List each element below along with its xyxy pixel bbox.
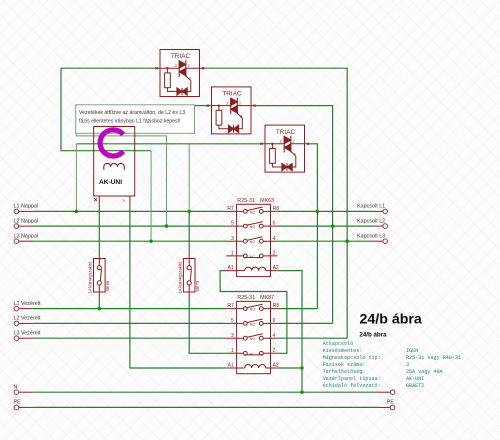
svg-text:NO: NO bbox=[250, 337, 256, 341]
svg-text:Kapcsolt L2: Kapcsolt L2 bbox=[357, 218, 385, 224]
svg-text:3: 3 bbox=[406, 362, 409, 368]
svg-text:1: 1 bbox=[231, 251, 234, 257]
circuit breaker F1 1A kismegszakito MK65 bbox=[88, 253, 110, 298]
svg-text:L2 Vezérelt: L2 Vezérelt bbox=[14, 316, 41, 322]
terminal L2 Vezerelt bbox=[14, 316, 41, 326]
node L1 Vezerelt / breaker F1 bbox=[98, 307, 101, 310]
terminal N right bbox=[378, 390, 395, 395]
svg-text:Átkapcsoló: Átkapcsoló bbox=[323, 340, 354, 347]
svg-text:3: 3 bbox=[231, 333, 234, 339]
terminal PE right bbox=[378, 400, 395, 410]
relay K2 R25-31 MK87 bbox=[226, 295, 279, 374]
triac module T3 (L1 phase) bbox=[260, 125, 309, 172]
wire relay K1 coil A1 to relay K2 contact 2 bbox=[220, 271, 287, 354]
node relay K2 coil A2 / N branch bbox=[300, 366, 303, 369]
spec table (teal) bbox=[323, 340, 461, 389]
svg-text:TRIAC: TRIAC bbox=[276, 129, 296, 136]
svg-text:NO: NO bbox=[250, 225, 256, 229]
circuit breaker F2 1A kismegszakito MK73 bbox=[178, 253, 200, 298]
wire breaker F2 to relay K2 pin 1 bbox=[189, 298, 226, 353]
wire L1 Nappal rail bbox=[33, 210, 226, 212]
svg-text:R7: R7 bbox=[227, 303, 234, 309]
svg-text:MK73: MK73 bbox=[195, 280, 200, 291]
svg-text:AK-UNI: AK-UNI bbox=[99, 179, 122, 186]
wire TRIAC1 left to CT (L3 phase) bbox=[61, 68, 157, 151]
svg-text:R8: R8 bbox=[273, 303, 280, 309]
svg-text:NO: NO bbox=[250, 240, 256, 244]
wire L2 Nappal rail bbox=[33, 225, 226, 227]
svg-text:2: 2 bbox=[273, 348, 276, 354]
svg-text:4: 4 bbox=[273, 236, 276, 242]
svg-text:AK-UNI: AK-UNI bbox=[406, 376, 424, 382]
svg-text:5: 5 bbox=[231, 318, 234, 324]
wire L1 Nappal to breaker F2 bbox=[188, 211, 190, 253]
terminal L2 Nappal bbox=[14, 218, 39, 228]
svg-text:R25-31: R25-31 bbox=[237, 198, 255, 204]
svg-text:Vezérlpanel típusa:: Vezérlpanel típusa: bbox=[323, 376, 381, 382]
wire Kapcsolt L3 bbox=[277, 240, 372, 242]
wire CT thread L1 loop left bbox=[75, 144, 77, 212]
svg-text:NC: NC bbox=[250, 255, 256, 259]
svg-text:PE: PE bbox=[14, 400, 22, 406]
node Kapcsolt L3 / TRIAC1 bbox=[346, 240, 349, 243]
svg-text:Kapcsolt L1: Kapcsolt L1 bbox=[357, 204, 385, 210]
wire PE rail bbox=[33, 406, 378, 408]
terminal L3 Nappal bbox=[14, 233, 39, 243]
wire TRIAC3 line from CT (L1 phase) bbox=[76, 143, 261, 145]
wire TRIAC3 right to Kapcsolt L1 bbox=[308, 144, 317, 309]
svg-text:L2 Nappal: L2 Nappal bbox=[14, 218, 39, 224]
node N rail junction bbox=[300, 391, 303, 394]
svg-text:5: 5 bbox=[231, 221, 234, 227]
wire N rail bbox=[33, 391, 378, 393]
node L2 Nappal / CT thread bbox=[165, 224, 168, 227]
svg-text:Mágneskapcsoló típ:: Mágneskapcsoló típ: bbox=[323, 355, 381, 361]
AK-UNI box white underlay bbox=[94, 127, 135, 197]
svg-text:L1 Vezérelt: L1 Vezérelt bbox=[14, 301, 41, 307]
wire Kapcsolt L1 bbox=[277, 210, 372, 212]
wire relay K2 pin 6 to Kapcsolt L2 bbox=[277, 322, 332, 324]
svg-text:fázis ellentétes irányban L1 f: fázis ellentétes irányban L1 fázishoz ké… bbox=[79, 119, 181, 125]
control panel U1 AK-UNI with current transformer bbox=[94, 127, 135, 204]
svg-text:Áthidaló félvezető:: Áthidaló félvezető: bbox=[323, 382, 381, 389]
wire L3 Vezerelt rail bbox=[33, 337, 226, 339]
svg-text:Fázisok száma:: Fázisok száma: bbox=[323, 362, 366, 368]
terminal L3 Vezerelt bbox=[14, 330, 41, 340]
svg-text:A2: A2 bbox=[273, 265, 279, 271]
svg-text:A1: A1 bbox=[228, 265, 234, 271]
svg-text:NC: NC bbox=[250, 352, 256, 356]
svg-text:L3 Nappal: L3 Nappal bbox=[14, 233, 39, 239]
terminal Kapcsolt L3 bbox=[357, 233, 387, 243]
svg-text:1A kismegszakító: 1A kismegszakító bbox=[178, 261, 183, 294]
wire AK-UNI right pin to relay K2 coil A1 bbox=[130, 203, 226, 368]
node L1 Nappal / CT loop return / F2 bbox=[188, 210, 191, 213]
node Kapcsolt L1 / TRIAC3 bbox=[316, 210, 319, 213]
wire TRIAC1 right to Kapcsolt L3 bbox=[203, 68, 347, 338]
svg-text:R25-31 vagy R40-31: R25-31 vagy R40-31 bbox=[406, 355, 461, 361]
node L1 Nappal / CT loop left bbox=[75, 210, 78, 213]
svg-text:3: 3 bbox=[231, 236, 234, 242]
relay K1 R25-31 MK63 bbox=[226, 198, 279, 277]
triac module T2 (L2 phase) bbox=[207, 87, 256, 134]
svg-text:6: 6 bbox=[273, 318, 276, 324]
terminal N left bbox=[14, 384, 34, 394]
svg-text:4: 4 bbox=[273, 333, 276, 339]
svg-text:Terhelhetőség:: Terhelhetőség: bbox=[323, 369, 366, 375]
svg-text:MK87: MK87 bbox=[260, 295, 274, 301]
terminal PE left bbox=[14, 400, 34, 410]
svg-text:1A kismegszakító: 1A kismegszakító bbox=[88, 261, 93, 294]
wire L1 Vezerelt rail bbox=[33, 308, 226, 310]
wire Kapcsolt L2 bbox=[277, 225, 372, 227]
wire breaker F1 to L1 Vezerelt bbox=[98, 298, 100, 309]
svg-text:NO: NO bbox=[250, 210, 256, 214]
svg-text:MK63: MK63 bbox=[260, 198, 274, 204]
svg-text:R25-31: R25-31 bbox=[237, 295, 255, 301]
svg-text:TRIAC: TRIAC bbox=[222, 91, 242, 98]
svg-text:R7: R7 bbox=[227, 206, 234, 212]
svg-text:IGEN: IGEN bbox=[406, 348, 418, 354]
inductor coil inside AK-UNI bbox=[104, 163, 124, 169]
svg-text:L3 Vezérelt: L3 Vezérelt bbox=[14, 330, 41, 336]
wire L2 Vezerelt rail bbox=[33, 322, 226, 324]
terminal Kapcsolt L1 bbox=[357, 204, 387, 214]
svg-text:>: > bbox=[122, 198, 125, 203]
svg-text:NO: NO bbox=[250, 308, 256, 312]
terminal L1 Nappal bbox=[14, 204, 39, 214]
wire TRIAC2 right to Kapcsolt L2 bbox=[255, 106, 333, 324]
terminal L1 Vezerelt bbox=[14, 301, 41, 311]
svg-text:Kiesésmentes:: Kiesésmentes: bbox=[323, 348, 363, 354]
svg-text:25A vagy 40A: 25A vagy 40A bbox=[406, 369, 444, 375]
annotation note box bbox=[76, 105, 195, 134]
svg-text:A1: A1 bbox=[228, 363, 234, 369]
svg-text:GRAETZ: GRAETZ bbox=[406, 383, 424, 389]
svg-text:TRIAC: TRIAC bbox=[171, 53, 191, 60]
svg-text:A2: A2 bbox=[273, 363, 279, 369]
svg-text:PE: PE bbox=[387, 400, 395, 406]
svg-text:NO: NO bbox=[250, 322, 256, 326]
wire TRIAC2 left feed bbox=[195, 105, 209, 107]
wire relay K2 coil A2 bbox=[277, 367, 302, 369]
triac module T1 (L3 phase) bbox=[155, 50, 204, 97]
wire relay K1 coil A2 to N bbox=[277, 271, 302, 393]
svg-text:L1 Nappal: L1 Nappal bbox=[14, 204, 39, 210]
wire relay K2 pin 4 to Kapcsolt L3 bbox=[277, 337, 347, 339]
svg-text:Kapcsolt L3: Kapcsolt L3 bbox=[357, 233, 385, 239]
wire L3 Nappal rail bbox=[33, 240, 226, 242]
node L3 Nappal / CT thread bbox=[149, 240, 152, 243]
terminal Kapcsolt L2 bbox=[357, 218, 387, 228]
svg-text:R8: R8 bbox=[273, 206, 280, 212]
svg-text:24/b ábra: 24/b ábra bbox=[360, 311, 422, 327]
svg-text:24/b ábra: 24/b ábra bbox=[359, 331, 387, 338]
wire relay K2 R8 to Kapcsolt L1 bbox=[277, 308, 317, 310]
node Kapcsolt L2 / TRIAC2 bbox=[331, 224, 334, 227]
svg-text:Vezetékek átfűzve az áramváltó: Vezetékek átfűzve az áramváltón, de L2 é… bbox=[79, 110, 185, 116]
wire CT thread L3 descent bbox=[150, 151, 152, 242]
svg-text:N: N bbox=[14, 384, 18, 390]
wire CT thread L2 phase upper bbox=[76, 106, 166, 227]
svg-text:2: 2 bbox=[273, 251, 276, 257]
wire AK-UNI left pin to breaker F1 bbox=[98, 203, 100, 253]
wire CT thread L1 loop return bbox=[188, 144, 190, 212]
svg-text:6: 6 bbox=[273, 221, 276, 227]
svg-text:MK65: MK65 bbox=[105, 280, 110, 291]
svg-text:1: 1 bbox=[231, 348, 234, 354]
current transformer C ring (magenta) bbox=[100, 130, 123, 156]
